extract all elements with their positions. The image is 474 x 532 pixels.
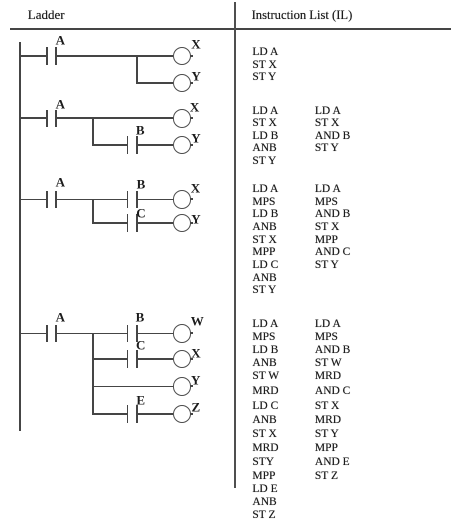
IL text: AND C bbox=[315, 247, 350, 259]
contact A (rung 3) right bar bbox=[55, 191, 57, 209]
label C (rung 4) bbox=[136, 339, 145, 352]
rung 3 wire contact B to coil bbox=[138, 199, 173, 201]
rung 4 wire contact A to contact B bbox=[57, 333, 127, 335]
IL text: MPP bbox=[315, 443, 338, 455]
contact A (rung 4) right bar bbox=[55, 325, 57, 343]
IL text: ST Y bbox=[252, 72, 276, 84]
header underline bbox=[10, 28, 451, 30]
IL text: ST Y bbox=[252, 156, 276, 168]
contact E (rung 4) right bar bbox=[136, 405, 138, 423]
table header text: Instruction List (IL) bbox=[252, 9, 353, 22]
IL text: LD E bbox=[252, 484, 277, 496]
IL text: LD A bbox=[252, 106, 278, 118]
contact B (rung 2) left bar bbox=[127, 136, 129, 154]
contact B (rung 4) right bar bbox=[136, 325, 138, 343]
rung 3 branch vertical bbox=[92, 199, 94, 224]
coil Z (rung 4) right stub bbox=[190, 413, 192, 415]
label X (rung 4) bbox=[191, 346, 200, 359]
IL text: AND E bbox=[315, 457, 350, 469]
IL text: ST X bbox=[252, 118, 276, 130]
IL text: STY bbox=[252, 457, 274, 469]
rung 2 wire contact A to coil bbox=[57, 117, 173, 119]
coil Z (rung 4) bbox=[173, 405, 192, 424]
label C (rung 3) bbox=[136, 206, 145, 219]
IL text: ANB bbox=[252, 497, 276, 509]
IL text: ST Z bbox=[315, 471, 338, 483]
table header text: Ladder bbox=[28, 8, 65, 21]
contact B (rung 4) left bar bbox=[127, 325, 129, 343]
IL text: LD B bbox=[252, 209, 278, 221]
IL text: ST Y bbox=[315, 260, 339, 272]
contact A (rung 2) left bar bbox=[46, 110, 48, 128]
IL text: ST X bbox=[252, 429, 276, 441]
coil X (rung 2) bbox=[173, 109, 192, 128]
rung 1 wire contact A to coil bbox=[57, 55, 173, 57]
rung 4 wire rail to contact A bbox=[19, 333, 46, 335]
rung 1 wire rail to contact A bbox=[19, 55, 46, 57]
rung 2 wire rail to contact A bbox=[19, 117, 46, 119]
contact B (rung 3) right bar bbox=[136, 191, 138, 209]
IL text: ST Y bbox=[252, 285, 276, 297]
label A (rung 4) bbox=[56, 311, 65, 324]
rung 4 wire contact C to coil X bbox=[138, 358, 173, 360]
coil Y (rung 1) right stub bbox=[190, 82, 192, 84]
IL text: ST X bbox=[315, 401, 339, 413]
rung 1 branch wire to coil Y bbox=[136, 82, 173, 84]
label B (rung 3) bbox=[137, 177, 146, 190]
rung 2 branch wire to contact B bbox=[92, 144, 126, 146]
label W (rung 4) bbox=[191, 315, 204, 328]
IL text: LD A bbox=[252, 319, 278, 331]
coil X (rung 3) right stub bbox=[190, 198, 192, 200]
rung 4 wire contact B to coil bbox=[138, 333, 173, 335]
label Y (rung 4) bbox=[191, 374, 200, 387]
label A (rung 2) bbox=[56, 98, 65, 111]
rung 4 branch wire to contact E bbox=[92, 413, 126, 415]
IL text: MPS bbox=[252, 332, 275, 344]
label Y (rung 1) bbox=[191, 69, 200, 82]
IL text: ST W bbox=[315, 358, 342, 370]
IL text: AND B bbox=[315, 131, 350, 143]
coil Y (rung 2) right stub bbox=[190, 144, 192, 146]
left power rail bbox=[19, 42, 21, 431]
IL text: ST Y bbox=[315, 429, 339, 441]
IL text: ANB bbox=[252, 358, 276, 370]
label B (rung 4) bbox=[136, 311, 145, 324]
rung 3 wire rail to contact A bbox=[19, 199, 46, 201]
IL text: LD A bbox=[315, 184, 341, 196]
coil X (rung 4) right stub bbox=[190, 358, 192, 360]
contact C (rung 4) left bar bbox=[127, 350, 129, 368]
IL text: ST Y bbox=[315, 143, 339, 155]
coil X (rung 4) bbox=[173, 350, 192, 369]
contact C (rung 3) left bar bbox=[127, 214, 129, 232]
rung 3 wire contact A to contact B bbox=[57, 199, 127, 201]
coil Y (rung 1) bbox=[173, 74, 192, 93]
label X (rung 3) bbox=[191, 182, 200, 195]
contact E (rung 4) left bar bbox=[127, 405, 129, 423]
IL text: ST Z bbox=[252, 510, 275, 522]
coil Y (rung 4) bbox=[173, 377, 192, 396]
IL text: MPS bbox=[252, 197, 275, 209]
label Y (rung 2) bbox=[191, 132, 200, 145]
contact C (rung 4) right bar bbox=[136, 350, 138, 368]
IL text: MPS bbox=[315, 197, 338, 209]
IL text: MRD bbox=[315, 415, 341, 427]
contact A (rung 1) left bar bbox=[46, 47, 48, 65]
IL text: ANB bbox=[252, 273, 276, 285]
label A (rung 1) bbox=[56, 34, 65, 47]
IL text: ST X bbox=[315, 118, 339, 130]
coil X (rung 2) right stub bbox=[190, 117, 192, 119]
IL text: ANB bbox=[252, 222, 276, 234]
IL text: ST X bbox=[315, 222, 339, 234]
rung 4 wire contact E to coil Z bbox=[138, 413, 173, 415]
IL text: LD A bbox=[315, 106, 341, 118]
label Y (rung 3) bbox=[191, 212, 200, 225]
IL text: LD A bbox=[252, 184, 278, 196]
IL text: ST X bbox=[252, 60, 276, 72]
label Z (rung 4) bbox=[191, 401, 200, 414]
IL text: LD B bbox=[252, 131, 278, 143]
contact A (rung 4) left bar bbox=[46, 325, 48, 343]
coil X (rung 1) right stub bbox=[190, 55, 192, 57]
IL text: LD C bbox=[252, 401, 278, 413]
rung 1 branch vertical bbox=[136, 55, 138, 84]
label A (rung 3) bbox=[56, 176, 65, 189]
contact A (rung 2) right bar bbox=[55, 110, 57, 128]
label B (rung 2) bbox=[136, 123, 145, 136]
column separator bbox=[234, 2, 236, 488]
coil Y (rung 4) right stub bbox=[190, 385, 192, 387]
IL text: MPP bbox=[252, 247, 275, 259]
IL text: AND B bbox=[315, 345, 350, 357]
label X (rung 2) bbox=[190, 101, 199, 114]
IL text: LD A bbox=[315, 319, 341, 331]
IL text: LD B bbox=[252, 345, 278, 357]
IL text: ST W bbox=[252, 371, 279, 383]
IL text: LD A bbox=[252, 47, 278, 59]
label X (rung 1) bbox=[191, 38, 200, 51]
coil X (rung 1) bbox=[173, 47, 192, 66]
IL text: MPP bbox=[252, 471, 275, 483]
IL text: ANB bbox=[252, 415, 276, 427]
rung 2 branch vertical bbox=[92, 118, 94, 146]
IL text: MRD bbox=[315, 371, 341, 383]
IL text: MRD bbox=[252, 443, 278, 455]
rung 3 branch wire to contact C bbox=[92, 222, 126, 224]
contact A (rung 1) right bar bbox=[55, 47, 57, 65]
contact A (rung 3) left bar bbox=[46, 191, 48, 209]
contact C (rung 3) right bar bbox=[136, 214, 138, 232]
rung 4 branch wire to coil Y bbox=[92, 386, 172, 388]
coil W (rung 4) bbox=[173, 324, 192, 343]
rung 4 branch vertical bbox=[92, 333, 94, 415]
rung 2 wire contact B to coil Y bbox=[138, 144, 173, 146]
contact B (rung 2) right bar bbox=[136, 136, 138, 154]
rung 3 wire contact C to coil Y bbox=[138, 222, 173, 224]
IL text: AND C bbox=[315, 386, 350, 398]
rung 4 branch wire to contact C bbox=[92, 358, 126, 360]
contact B (rung 3) left bar bbox=[127, 191, 129, 209]
IL text: ANB bbox=[252, 143, 276, 155]
coil Y (rung 3) bbox=[173, 214, 192, 233]
IL text: MPS bbox=[315, 332, 338, 344]
IL text: LD C bbox=[252, 260, 278, 272]
coil X (rung 3) bbox=[173, 190, 192, 209]
coil W (rung 4) right stub bbox=[190, 332, 192, 334]
coil Y (rung 2) bbox=[173, 136, 192, 155]
IL text: ST X bbox=[252, 235, 276, 247]
IL text: MPP bbox=[315, 235, 338, 247]
coil Y (rung 3) right stub bbox=[190, 222, 192, 224]
IL text: MRD bbox=[252, 386, 278, 398]
IL text: AND B bbox=[315, 209, 350, 221]
label E (rung 4) bbox=[136, 394, 145, 407]
